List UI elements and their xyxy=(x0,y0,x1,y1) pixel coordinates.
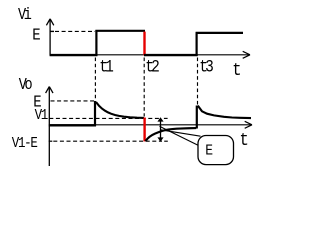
callout leader line upper xyxy=(161,130,201,136)
svg-text:t: t xyxy=(240,131,249,152)
dashed vertical t3 xyxy=(197,58,199,106)
Vi red falling edge t2 xyxy=(143,32,145,56)
svg-text:Vi: Vi xyxy=(18,7,32,24)
svg-text:V1: V1 xyxy=(35,108,49,124)
dashed V1-E level line xyxy=(53,140,162,142)
svg-text:V1-E: V1-E xyxy=(12,136,38,152)
svg-text:t3: t3 xyxy=(199,57,213,77)
svg-text:t2: t2 xyxy=(145,57,159,77)
Vi high segment 1 xyxy=(95,30,145,32)
dashed vertical t2 xyxy=(143,58,145,117)
Vo y-axis xyxy=(46,87,53,166)
Vi high segment 2 xyxy=(196,32,243,34)
dashed E level line (Vo) xyxy=(51,100,95,102)
Vi y-axis xyxy=(46,19,53,56)
svg-text:t: t xyxy=(232,61,241,81)
Vo exponential decay after t3 xyxy=(198,106,251,119)
V1-E tick xyxy=(49,140,53,142)
dashed E level line (Vi) xyxy=(55,30,95,32)
Vi rising edge t1 xyxy=(95,30,97,56)
callout bubble xyxy=(198,136,234,165)
Vo exponential decay t1-t2 xyxy=(96,102,144,118)
Vo time axis xyxy=(49,121,252,128)
Vi waveform low segment 1 xyxy=(50,54,98,56)
Vi low segment 2 xyxy=(144,54,198,56)
Vo waveform flat segment before t1 xyxy=(49,124,96,126)
Vo step up at t3 xyxy=(196,106,198,129)
Vi time axis xyxy=(50,51,250,58)
svg-text:E: E xyxy=(205,144,213,160)
svg-text:E: E xyxy=(32,25,40,44)
dashed V1 level line xyxy=(49,117,161,119)
svg-text:Vo: Vo xyxy=(19,77,32,94)
svg-text:t1: t1 xyxy=(99,57,113,77)
Vo recovery curve t2-t3 xyxy=(145,128,196,141)
Vo red drop at t2 xyxy=(143,118,145,142)
Vo step up at t1 xyxy=(94,101,96,126)
E measurement double arrow xyxy=(157,117,163,142)
callout leader line lower xyxy=(160,126,199,145)
dashed vertical t1 xyxy=(94,58,96,101)
Vi rising edge t3 xyxy=(196,32,198,56)
Vi E tick xyxy=(50,30,54,32)
